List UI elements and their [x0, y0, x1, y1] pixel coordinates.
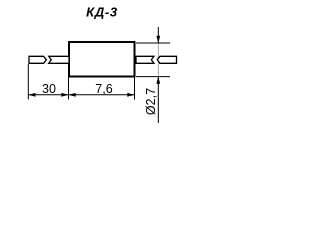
diameter dimension line upper part — [157, 27, 159, 43]
arrow up to body bottom — [156, 77, 160, 84]
extension line at body left edge — [68, 78, 70, 100]
right lead outer segment — [157, 56, 176, 63]
extension line at lead left end — [27, 64, 29, 100]
arrow left of dim 30 — [28, 93, 35, 97]
dimension line 30 and 7,6 — [28, 94, 134, 96]
svg-text:КД-3: КД-3 — [86, 4, 118, 19]
diode body (case) — [69, 42, 135, 77]
diameter dimension line faint middle part — [157, 43, 159, 77]
left lead outer segment — [29, 56, 46, 63]
diameter dimension line lower part — [157, 77, 159, 123]
arrow down to body top — [156, 36, 160, 43]
svg-text:7,6: 7,6 — [95, 82, 112, 96]
extension line at body bottom edge — [136, 76, 170, 78]
svg-text:Ø2,7: Ø2,7 — [144, 88, 158, 115]
arrow right of dim 30 — [61, 93, 68, 97]
right lead inner segment — [136, 56, 154, 63]
extension line at body right edge — [134, 78, 136, 100]
left lead inner segment — [49, 56, 69, 63]
extension line at body top edge — [136, 42, 170, 44]
arrow right of dim 7,6 — [127, 93, 134, 97]
arrow left of dim 7,6 — [69, 93, 76, 97]
svg-text:30: 30 — [42, 82, 56, 96]
